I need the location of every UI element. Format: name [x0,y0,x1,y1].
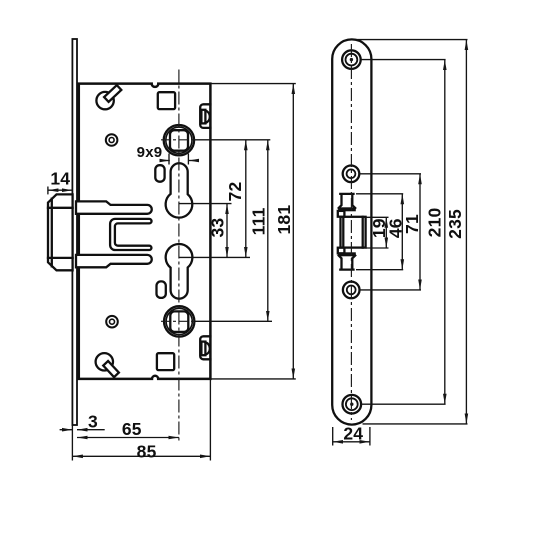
ext plate top [357,39,468,41]
ext mid screw1 [359,173,421,175]
latch bolt face line upper [48,207,73,209]
dim 181 [292,84,294,379]
dimension texts [50,144,465,461]
lock case [79,84,211,379]
ext case top [211,83,296,85]
svg-text:71: 71 [402,214,422,234]
ext spool bottom [356,269,403,271]
bottom screw hole [343,395,362,414]
ext bolt top [366,216,389,218]
dim 14 [47,187,49,195]
dim 46 [401,194,403,270]
screw post ring lower [106,316,118,328]
front plate outline [332,39,371,424]
dim 65 [77,437,179,439]
ext screw bottom [361,403,446,405]
dim 24 [332,427,334,446]
middle screw hole lower [343,282,360,299]
svg-text:65: 65 [122,419,142,439]
latch tail bottom bar [76,255,152,267]
latch guide bottom cup [339,256,356,270]
ext screw top [361,59,446,61]
ext cyl1 center [179,203,232,205]
small tab below bolt [338,248,345,254]
bottom lever [96,353,113,370]
top lever [96,92,113,109]
svg-text:24: 24 [343,424,363,444]
svg-text:235: 235 [445,209,465,239]
center lines [161,44,351,442]
svg-text:14: 14 [50,169,70,189]
svg-text:3: 3 [88,412,98,432]
side tab upper [200,104,210,128]
latch guide bottom brim band [339,253,356,256]
dim 210 [444,60,446,405]
dim 85 [209,379,211,461]
small slot lower [157,281,166,298]
ext bolt bottom [366,247,389,249]
extension and dimension lines [48,40,468,461]
top screw hole [342,50,361,69]
latch spring C-strip [110,219,151,250]
dim 111 [267,140,269,321]
latch bolt [48,194,73,270]
dim 3 [60,429,73,431]
ext plate bottom [363,423,468,425]
follower lower [164,306,194,336]
dim 19 [385,217,387,248]
dim 72 [245,140,247,258]
ext spool top [356,193,403,195]
dim 33 [226,204,228,258]
screw post ring upper [106,134,118,146]
svg-text:181: 181 [274,205,294,235]
ext mid screw2 [360,289,422,291]
square hole lower [157,353,174,370]
latch guide top brim band [339,208,356,211]
ext follower2 center [194,320,272,322]
latch tail top bar [76,201,152,213]
dim 71 [419,174,421,290]
dim 235 [465,40,467,424]
latch bolt face line lower [48,257,73,259]
small slot upper [155,165,164,182]
svg-text:85: 85 [137,441,157,461]
cylinder hole upper [166,163,193,217]
latch bolt bevel line vertical [51,199,53,267]
svg-text:9x9: 9x9 [137,144,163,161]
ext case bottom [211,378,296,380]
ext follower1 center [194,139,270,141]
dim 9x9 [168,154,170,165]
ext cyl2 center [179,256,250,258]
side tab lower [200,336,210,359]
svg-text:33: 33 [208,218,228,238]
follower upper [164,125,194,155]
middle screw hole upper [343,166,360,183]
square hole upper [158,92,175,109]
cylinder hole lower [166,244,193,299]
deadbolt front [341,217,366,248]
faceplate side view [72,39,77,425]
latch guide top cup [339,194,356,208]
small tab above bolt [338,211,345,217]
svg-text:72: 72 [225,182,245,202]
svg-text:111: 111 [248,207,268,235]
svg-text:210: 210 [424,207,444,237]
